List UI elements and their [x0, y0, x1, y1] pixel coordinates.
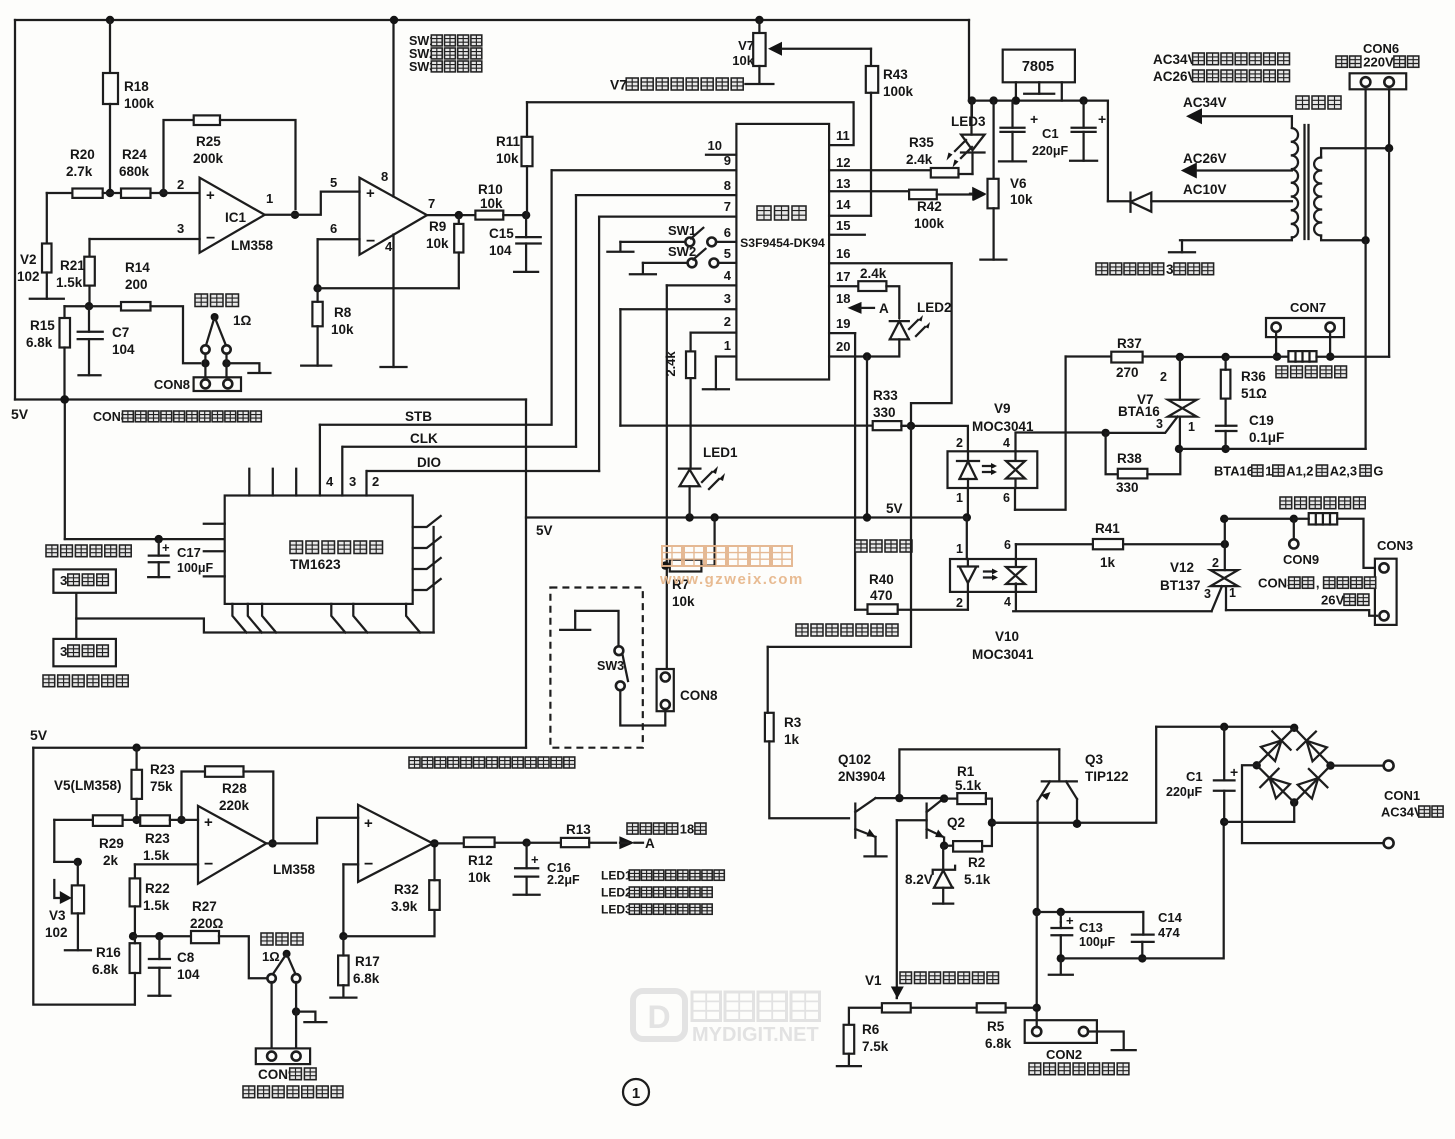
thermocouple2 leads — [272, 982, 301, 1056]
svg-text:7: 7 — [428, 196, 435, 211]
resistor R37 270 — [1066, 336, 1180, 380]
svg-text:3: 3 — [177, 221, 184, 236]
svg-text:7.5k: 7.5k — [862, 1039, 889, 1054]
connector CON2 — [1025, 1013, 1097, 1063]
wire emitter node to C13/C14 — [1037, 908, 1144, 916]
svg-text:BT137: BT137 — [1160, 578, 1201, 593]
svg-text:4: 4 — [1003, 436, 1010, 450]
svg-text:STB: STB — [405, 409, 432, 424]
svg-text:+: + — [1230, 764, 1238, 780]
op-amp IC1b LM358 — [360, 178, 428, 255]
resistor R24b 1.5k — [140, 815, 170, 863]
wire pin4 to ground — [381, 235, 407, 368]
LED3 diode — [947, 101, 985, 174]
wire feedback to R32 — [343, 910, 434, 936]
svg-text:2N3904: 2N3904 — [838, 769, 886, 784]
svg-text:100k: 100k — [883, 84, 914, 99]
wire V10 pin4 to V12 gate — [1013, 584, 1211, 612]
svg-text:R17: R17 — [355, 954, 380, 969]
resistor R27 220 — [190, 899, 267, 978]
svg-text:330: 330 — [873, 405, 896, 420]
label CON6 220V input — [1336, 41, 1419, 70]
wire CON6 pin1 down — [1361, 89, 1369, 244]
resistor R7 10k — [661, 518, 715, 610]
pin18 arrow node A — [848, 301, 890, 316]
V9 input LED — [957, 451, 979, 488]
svg-text:4: 4 — [385, 239, 393, 254]
svg-text:10k: 10k — [426, 236, 449, 251]
blower heater core element — [1288, 351, 1389, 362]
svg-text:10k: 10k — [468, 870, 491, 885]
MCU pin 15 stub — [829, 234, 865, 236]
node R23/R29 junction — [123, 816, 141, 824]
pin 5 label — [724, 246, 731, 261]
note AC supply — [1153, 52, 1290, 84]
svg-text:8: 8 — [724, 178, 731, 193]
svg-text:C15: C15 — [489, 226, 514, 241]
node R24/R25/pin2 junction — [151, 189, 200, 197]
svg-text:DIO: DIO — [417, 455, 441, 470]
resistor R3 1k — [765, 647, 849, 818]
svg-text:R27: R27 — [192, 899, 217, 914]
svg-text:15: 15 — [836, 218, 850, 233]
svg-text:5V: 5V — [11, 406, 29, 422]
svg-text:R3: R3 — [784, 715, 802, 730]
svg-text:C8: C8 — [177, 950, 195, 965]
wire DIO — [367, 455, 599, 471]
wire pin9 vertical to STB — [550, 170, 552, 425]
wire MCU pin16 — [829, 262, 952, 264]
switch SW3 — [597, 646, 628, 690]
wire thermocouple2 to ground — [296, 1012, 326, 1023]
svg-text:9: 9 — [724, 153, 731, 168]
svg-text:AC34V: AC34V — [1183, 95, 1227, 110]
svg-text:6: 6 — [1004, 538, 1011, 552]
svg-text:A1,2: A1,2 — [1286, 463, 1313, 478]
wire V9 pin1 to 5V — [963, 488, 971, 522]
svg-text:104: 104 — [177, 967, 200, 982]
svg-text:+: + — [162, 540, 170, 555]
resistor R11 10k — [496, 102, 533, 215]
wire up to R25 — [164, 120, 194, 193]
svg-text:1: 1 — [1188, 420, 1195, 434]
wire MCU pin 3 — [620, 291, 736, 309]
wire SW3 upper to ground — [560, 611, 618, 646]
svg-text:10k: 10k — [480, 196, 503, 211]
transformer core — [1305, 125, 1309, 239]
svg-text:2.4k: 2.4k — [663, 351, 678, 377]
svg-text:51Ω: 51Ω — [1241, 386, 1267, 401]
svg-text:LED1: LED1 — [601, 869, 632, 883]
label CON2 fan supply — [1029, 1063, 1129, 1075]
svg-text:R23: R23 — [150, 762, 175, 777]
svg-text:D: D — [647, 999, 670, 1035]
resistor R15 6.8k — [26, 306, 121, 403]
resistor R42 100k with arrow — [829, 188, 986, 231]
svg-text:2.4k: 2.4k — [906, 152, 933, 167]
wire Q102 collector — [876, 794, 945, 802]
svg-text:CON9: CON9 — [1283, 552, 1319, 567]
svg-text:5V: 5V — [886, 501, 903, 516]
wire BTA16 A1 line — [1175, 445, 1366, 453]
watermark gzweix url — [659, 571, 804, 588]
wire MCU pin 19 — [829, 332, 855, 334]
label V1 fan speed pot — [865, 972, 999, 988]
net 5V label mid-left — [536, 523, 553, 538]
wire 5V to V10 pin1 — [966, 518, 968, 560]
wire V5a out to V5b plus — [266, 818, 358, 848]
TM1623 right segment pins — [413, 516, 441, 633]
svg-text:+: + — [364, 815, 373, 832]
note SW functions — [409, 34, 482, 74]
svg-text:R22: R22 — [145, 881, 170, 896]
svg-text:LED1: LED1 — [703, 445, 738, 460]
svg-text:4: 4 — [326, 474, 334, 489]
wire CLK — [343, 431, 576, 447]
svg-text:V5(LM358): V5(LM358) — [54, 778, 122, 793]
svg-text:LED3: LED3 — [951, 114, 986, 129]
note LED1 function — [601, 869, 724, 883]
connector CON8 bottom — [657, 669, 718, 711]
V9 pin numbers — [956, 436, 1010, 505]
svg-text:IC1: IC1 — [225, 210, 247, 225]
svg-text:26V: 26V — [1321, 593, 1345, 608]
resistor R10 10k — [475, 182, 503, 220]
svg-text:20: 20 — [836, 339, 850, 354]
wire MCU pin 8 — [576, 178, 736, 195]
svg-text:1.5k: 1.5k — [56, 275, 83, 290]
svg-text:1Ω: 1Ω — [262, 949, 280, 964]
svg-text:Q3: Q3 — [1085, 752, 1104, 767]
V9 output triac — [983, 451, 1025, 488]
svg-text:R29: R29 — [99, 836, 124, 851]
label Q3 TIP122 — [1085, 752, 1129, 784]
connector CON8 top — [154, 377, 241, 392]
svg-text:LED2: LED2 — [601, 886, 632, 900]
label iron heater — [1280, 497, 1365, 509]
svg-text:−: − — [204, 856, 213, 873]
wire bridge AC to CON1 pin2 — [1242, 765, 1394, 848]
svg-text:2.2μF: 2.2μF — [547, 873, 580, 887]
svg-text:C7: C7 — [112, 325, 129, 340]
wire MCU pin 4 — [667, 268, 737, 285]
wire left border — [14, 20, 16, 400]
node V7 top — [755, 16, 763, 33]
resistor R38 330 — [1106, 433, 1181, 495]
svg-text:5: 5 — [724, 246, 731, 261]
svg-text:470: 470 — [870, 588, 893, 603]
svg-text:104: 104 — [112, 342, 135, 357]
resistor R34 2.4k pin17 — [829, 266, 899, 318]
LED2 diode — [890, 315, 930, 339]
label LED3 — [951, 114, 986, 129]
svg-text:220V: 220V — [1363, 55, 1394, 70]
optocoupler V9 MOC3041 body — [948, 451, 1038, 488]
svg-text:10k: 10k — [732, 53, 754, 68]
label LM358 bottom — [273, 862, 316, 877]
zener diode 8.2V — [905, 846, 955, 904]
svg-text:R6: R6 — [862, 1022, 880, 1037]
capacitor C14 474 — [1132, 910, 1183, 963]
wire SW3 to CON8 pin2 — [620, 690, 665, 725]
net 5V label mid-right — [886, 501, 903, 516]
svg-text:BTA16: BTA16 — [1118, 404, 1160, 419]
svg-text:+: + — [1066, 913, 1074, 928]
svg-text:R16: R16 — [96, 945, 121, 960]
wire 5V branch to TM1623 — [65, 535, 225, 543]
svg-text:+: + — [531, 852, 539, 867]
svg-text:5: 5 — [330, 175, 337, 190]
wire V9 pin4 to gate line — [1016, 433, 1106, 452]
wires CON7 pins down — [1273, 332, 1335, 361]
label blower heater — [1276, 366, 1347, 378]
svg-text:CON8: CON8 — [680, 688, 718, 703]
resistor R33 330 — [620, 388, 911, 430]
wire V5b minus — [339, 864, 358, 940]
thermocouple iron element — [267, 950, 300, 983]
svg-text:6: 6 — [330, 221, 337, 236]
label CON1 — [1384, 788, 1420, 803]
node R21/C7/R14/R15 junction — [85, 286, 93, 311]
svg-text:100k: 100k — [914, 216, 945, 231]
svg-text:CON1: CON1 — [1384, 788, 1420, 803]
svg-text:16: 16 — [836, 246, 850, 261]
resistor R6 7.5k — [837, 1008, 889, 1066]
wire bridge minus line — [1224, 821, 1294, 823]
transformer secondary winding — [1180, 116, 1298, 240]
transformer primary winding — [1314, 148, 1389, 240]
svg-text:V6: V6 — [1010, 176, 1027, 191]
wire feedback to R9 — [318, 287, 459, 289]
svg-text:R21: R21 — [60, 258, 85, 273]
capacitor C8 104 — [148, 936, 200, 996]
svg-text:R35: R35 — [909, 135, 934, 150]
wire 5V bottom rail — [30, 727, 526, 748]
label C1 220uF — [1032, 126, 1069, 158]
svg-text:R38: R38 — [1117, 451, 1142, 466]
svg-text:R15: R15 — [30, 318, 55, 333]
svg-text:V12: V12 — [1170, 560, 1194, 575]
watermark mydigit logo — [633, 991, 685, 1039]
svg-text:4: 4 — [724, 268, 732, 283]
wire thermocouple to ground — [227, 363, 271, 373]
svg-text:V10: V10 — [995, 629, 1019, 644]
node IC1b output — [427, 211, 475, 219]
svg-text:5.1k: 5.1k — [964, 872, 991, 887]
svg-text:www.gzweix.com: www.gzweix.com — [659, 571, 804, 588]
watermark mydigit url — [692, 1024, 819, 1046]
resistor R5 6.8k — [977, 1003, 1037, 1051]
transistor Q3 TIP122 — [1038, 749, 1082, 912]
svg-text:C1: C1 — [1042, 126, 1059, 141]
svg-text:2: 2 — [956, 596, 963, 610]
svg-text:17: 17 — [836, 269, 850, 284]
resistor R36 51 — [1221, 357, 1267, 426]
svg-text:2.7k: 2.7k — [66, 164, 93, 179]
wire LED2 to pin20 node — [867, 339, 899, 356]
label iron temp display — [43, 675, 128, 687]
wire bridge AC to CON1 pin1 — [1331, 761, 1394, 771]
wire CON6 pin1 to iron heater line — [1364, 240, 1366, 449]
svg-text:R23: R23 — [145, 831, 170, 846]
transistor Q102 2N3904 — [855, 798, 886, 856]
svg-text:R24: R24 — [122, 147, 147, 162]
svg-text:2: 2 — [1160, 370, 1167, 384]
label thermocouple2 — [261, 933, 303, 964]
svg-text:+: + — [204, 814, 213, 831]
svg-text:CLK: CLK — [410, 431, 438, 446]
svg-text:1k: 1k — [784, 732, 800, 747]
svg-text:AC34V: AC34V — [1381, 804, 1423, 819]
wire 7805 out pin — [1012, 82, 1020, 105]
resistor R23 75k — [132, 744, 176, 820]
resistor R9 10k — [426, 215, 463, 288]
svg-text:2.4k: 2.4k — [860, 266, 887, 281]
svg-text:V2: V2 — [20, 252, 37, 267]
capacitor C15 104 — [489, 215, 541, 272]
svg-text:V7: V7 — [610, 77, 627, 92]
svg-text:75k: 75k — [150, 779, 173, 794]
note LED2 function — [601, 886, 712, 900]
switch SW1 — [607, 223, 736, 252]
svg-text:R32: R32 — [394, 882, 419, 897]
resistor R14 200 — [121, 260, 200, 363]
svg-text:V3: V3 — [49, 908, 66, 923]
connector CON9 socket — [256, 1048, 310, 1064]
wire display bus — [76, 593, 433, 639]
resistor R29 2k — [54, 815, 123, 868]
svg-text:+: + — [1098, 111, 1106, 127]
svg-text:,: , — [1316, 576, 1320, 591]
resistor R20 2.7k — [47, 147, 103, 198]
svg-text:R11: R11 — [496, 134, 521, 149]
svg-text:1: 1 — [1265, 463, 1272, 478]
pot V6 10k — [970, 176, 1033, 208]
labels V7 BTA16 — [1118, 370, 1195, 434]
wire MCU pin 2 — [691, 314, 737, 333]
svg-text:7805: 7805 — [1022, 59, 1054, 75]
svg-text:220Ω: 220Ω — [190, 916, 224, 931]
resistor R2 5.1k — [940, 819, 996, 888]
label LED2 — [917, 300, 952, 315]
node R18/R20/R24 junction — [103, 189, 121, 197]
svg-text:1k: 1k — [1100, 555, 1116, 570]
wire R37 to V9 pin6 — [1015, 357, 1066, 510]
svg-text:220k: 220k — [219, 798, 250, 813]
figure number 1 — [623, 1079, 649, 1105]
transistor Q2 — [897, 798, 965, 998]
svg-text:AC34V: AC34V — [1153, 52, 1197, 67]
wire C13/C14 ground line — [1049, 822, 1224, 975]
wire 7805 output rail — [969, 99, 1108, 101]
note to fan control — [796, 624, 898, 636]
capacitor C16 2.2uF — [514, 843, 540, 895]
wire iron heater line — [1220, 515, 1298, 545]
svg-text:R20: R20 — [70, 147, 95, 162]
svg-text:R36: R36 — [1241, 369, 1266, 384]
svg-text:V9: V9 — [994, 401, 1011, 416]
svg-text:330: 330 — [1116, 480, 1139, 495]
TM1623 left stubs — [204, 524, 225, 577]
diode VD1 AC10V — [1108, 193, 1292, 212]
optocoupler V10 MOC3041 body — [950, 559, 1036, 592]
svg-text:LED2: LED2 — [917, 300, 952, 315]
capacitor C19 0.1uF — [1216, 413, 1284, 449]
svg-text:10k: 10k — [496, 151, 519, 166]
TM1623 top stubs — [249, 469, 296, 496]
label CON9 socket — [243, 1067, 343, 1098]
svg-text:R1: R1 — [957, 764, 975, 779]
wire top 5V bus — [15, 19, 969, 21]
svg-text:R5: R5 — [987, 1019, 1005, 1034]
svg-text:1: 1 — [1229, 586, 1236, 600]
svg-text:SW2: SW2 — [668, 244, 696, 259]
svg-text:6: 6 — [1003, 491, 1010, 505]
wire top bus down to 5V out — [968, 20, 976, 105]
svg-text:3: 3 — [60, 573, 67, 588]
label V5 LM358 — [54, 778, 122, 793]
svg-text:V1: V1 — [865, 973, 882, 988]
svg-text:5.1k: 5.1k — [955, 778, 982, 793]
svg-text:2k: 2k — [103, 853, 119, 868]
resistor R26 2.4k — [663, 333, 695, 379]
svg-text:1: 1 — [956, 542, 963, 556]
svg-text:10k: 10k — [331, 322, 354, 337]
svg-text:−: − — [364, 856, 373, 873]
wire gate line to V7 BTA16 gate — [1101, 417, 1177, 437]
node R22/R16/C8/R27 — [129, 906, 137, 940]
LED1 diode — [679, 378, 725, 517]
pot V1 wiper and body — [882, 987, 977, 1013]
MCU pin 10 stub — [706, 138, 736, 155]
svg-text:2: 2 — [372, 474, 379, 489]
svg-text:18: 18 — [836, 291, 850, 306]
wire 5V rail upper-left — [15, 398, 526, 400]
svg-text:+: + — [206, 187, 215, 204]
svg-text:13: 13 — [836, 176, 850, 191]
wire MCU pin14 to R43 — [829, 215, 871, 217]
note BTA16 pinout — [1214, 463, 1383, 478]
svg-text:C13: C13 — [1079, 920, 1103, 935]
V10 output triac — [984, 544, 1025, 592]
labels IC1b pin numbers — [330, 169, 435, 254]
capacitor C7 104 — [78, 306, 135, 375]
wire secondary to ground — [1169, 240, 1195, 252]
V10 input LED — [958, 559, 978, 592]
svg-text:12: 12 — [836, 155, 850, 170]
resistor R1 5.1k — [940, 764, 992, 823]
svg-text:8.2V: 8.2V — [905, 872, 933, 887]
svg-text:200: 200 — [125, 277, 148, 292]
svg-text:R13: R13 — [566, 822, 591, 837]
wire bridge bottom — [1293, 803, 1295, 822]
wire CON6 pin2 to blower line — [1388, 148, 1390, 357]
TM1623 pin numbers — [326, 474, 379, 489]
resistor R40 470 — [855, 572, 968, 614]
svg-text:R43: R43 — [883, 67, 908, 82]
svg-text:6.8k: 6.8k — [353, 971, 380, 986]
label transformer — [1296, 96, 1341, 109]
capacitor C1 220uF — [1070, 96, 1106, 160]
svg-text:SW3: SW3 — [597, 659, 624, 673]
note V7 preset — [610, 77, 743, 92]
svg-text:TM1623: TM1623 — [290, 557, 341, 572]
svg-text:1: 1 — [266, 191, 273, 206]
wire collector up to Q3 base — [899, 749, 1059, 798]
svg-text:100k: 100k — [124, 96, 155, 111]
svg-text:104: 104 — [489, 243, 512, 258]
wire Q3 collector line — [992, 727, 1156, 828]
